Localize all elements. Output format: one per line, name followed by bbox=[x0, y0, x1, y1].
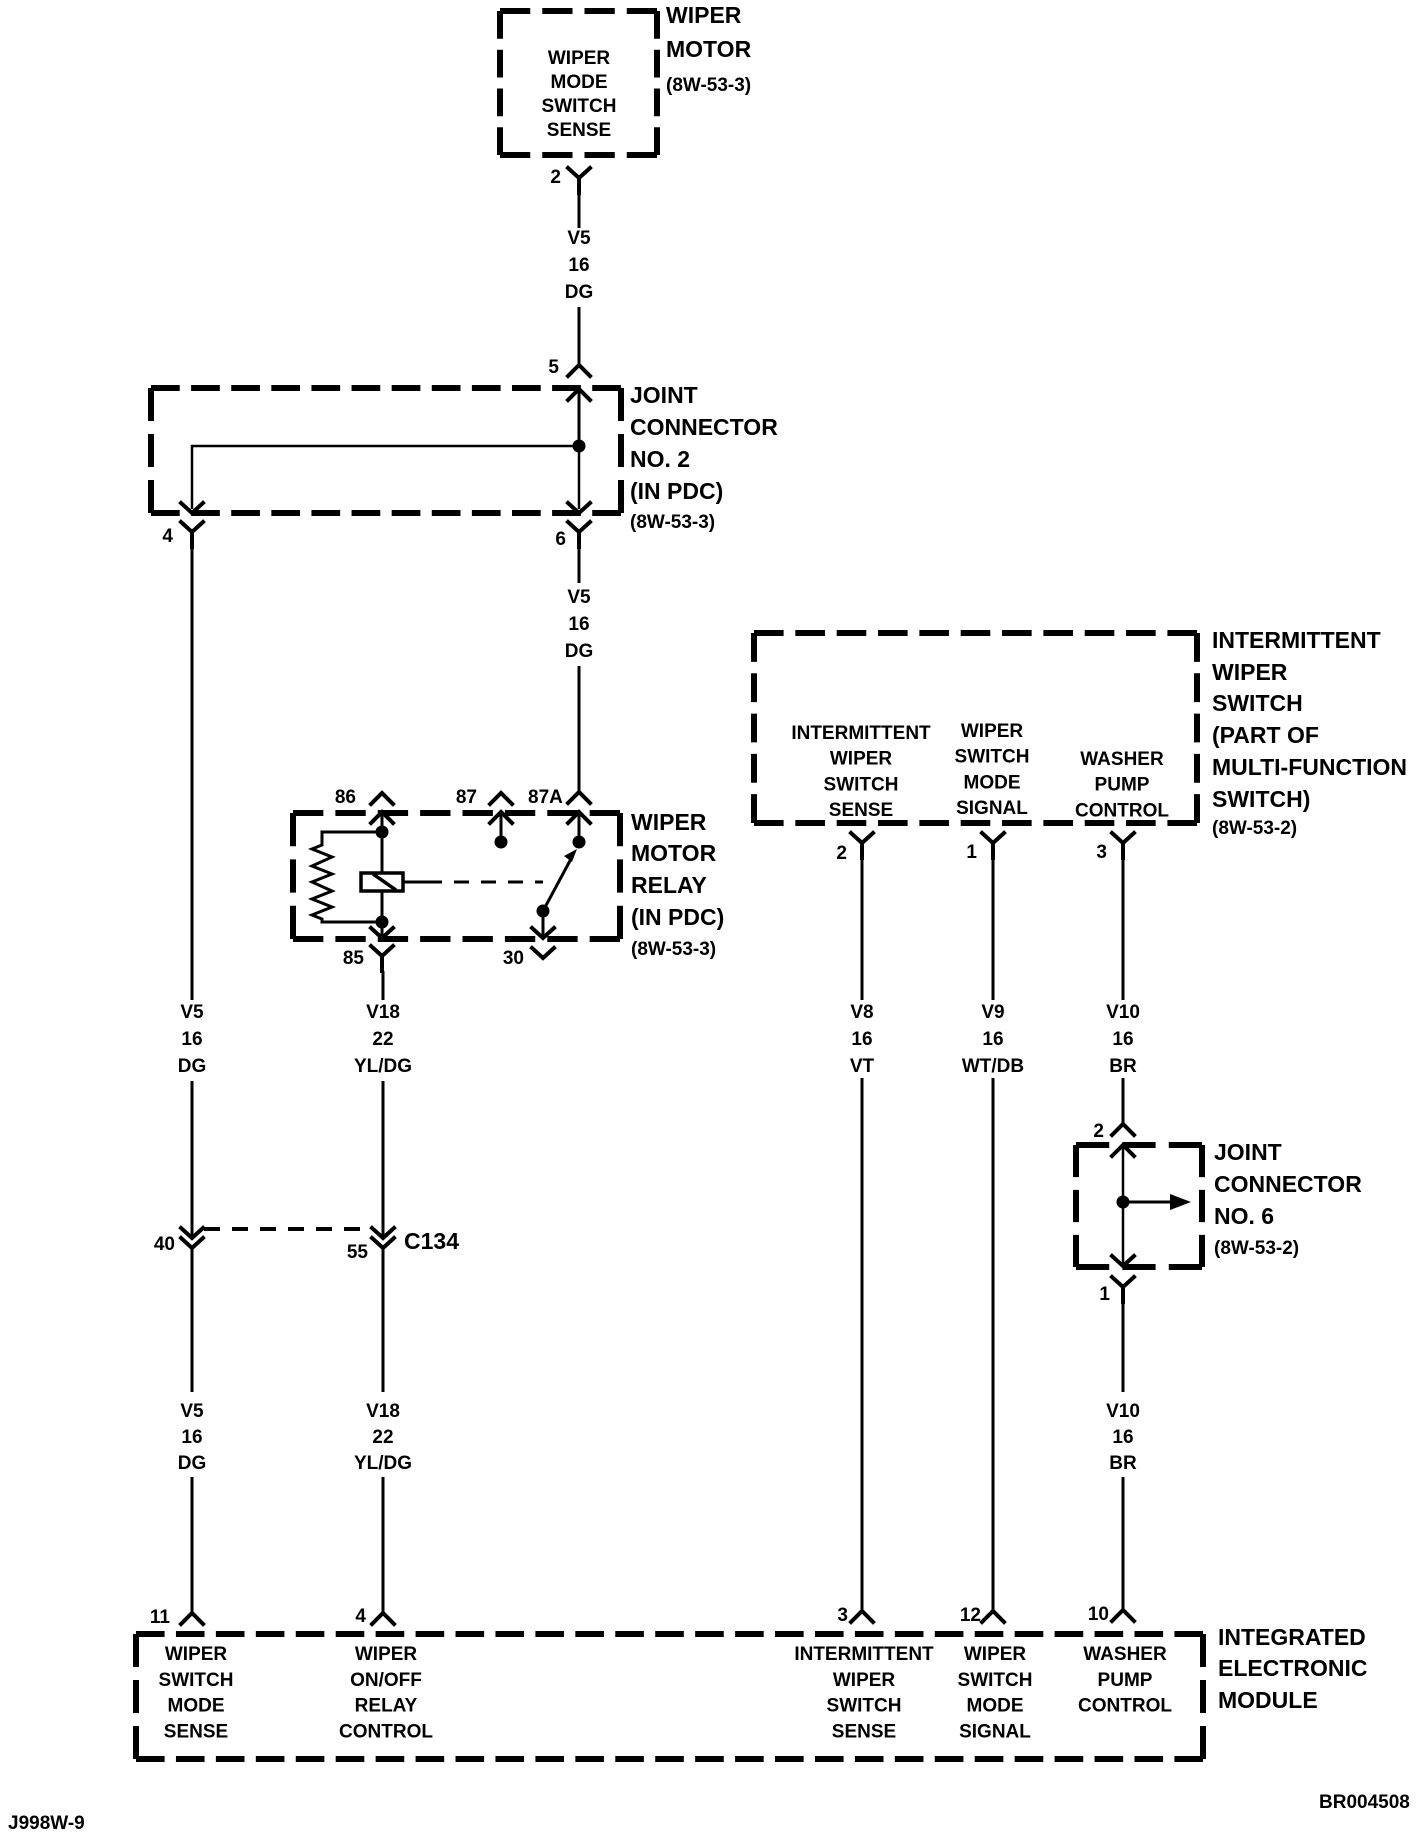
svg-text:CONTROL: CONTROL bbox=[1075, 800, 1169, 821]
svg-text:BR004508: BR004508 bbox=[1319, 1792, 1410, 1813]
wire label V8 16 VT bbox=[850, 1002, 875, 1077]
svg-text:V18: V18 bbox=[366, 1002, 400, 1023]
label: INTERMITTENT WIPER SWITCH SENSE (module) bbox=[794, 1644, 934, 1742]
svg-text:INTEGRATED: INTEGRATED bbox=[1218, 1624, 1366, 1650]
module pin 12 bbox=[960, 1605, 1004, 1626]
svg-text:RELAY: RELAY bbox=[631, 872, 707, 898]
svg-text:V5: V5 bbox=[567, 587, 591, 608]
connector C134 pin 55 bbox=[347, 1228, 394, 1263]
pin 1 of intermittent wiper switch bbox=[966, 833, 1004, 863]
svg-text:INTERMITTENT: INTERMITTENT bbox=[794, 1644, 934, 1665]
pin 2 of joint connector no.6 bbox=[1093, 1121, 1134, 1156]
wire: junction down to pin 6 bbox=[578, 446, 581, 509]
label: WIPER MOTOR (8W-53-3) bbox=[666, 2, 752, 96]
svg-text:WIPER: WIPER bbox=[961, 721, 1024, 742]
svg-text:(8W-53-3): (8W-53-3) bbox=[630, 512, 715, 533]
pin 4 of joint connector no.2 bbox=[162, 503, 203, 547]
svg-text:DG: DG bbox=[565, 641, 594, 662]
svg-text:V8: V8 bbox=[850, 1002, 873, 1023]
wire: down to module pin 10 bbox=[1122, 1477, 1125, 1610]
relay terminal 86 bbox=[335, 787, 393, 832]
svg-text:1: 1 bbox=[966, 842, 977, 863]
svg-text:87A: 87A bbox=[528, 787, 563, 808]
svg-text:(IN PDC): (IN PDC) bbox=[631, 904, 724, 930]
wire: C134 pin 55 down bbox=[382, 1248, 385, 1392]
svg-text:SWITCH: SWITCH bbox=[955, 747, 1030, 768]
relay terminal 87A bbox=[528, 787, 590, 849]
svg-text:22: 22 bbox=[372, 1029, 393, 1050]
pin 2 of wiper motor connector bbox=[550, 167, 590, 193]
pin 3 of intermittent wiper switch bbox=[1096, 833, 1134, 863]
svg-text:WIPER: WIPER bbox=[355, 1644, 418, 1665]
svg-text:(8W-53-3): (8W-53-3) bbox=[631, 939, 716, 960]
svg-text:CONNECTOR: CONNECTOR bbox=[630, 414, 778, 440]
svg-text:INTERMITTENT: INTERMITTENT bbox=[791, 723, 931, 744]
svg-text:16: 16 bbox=[181, 1029, 202, 1050]
svg-text:MODE: MODE bbox=[967, 1696, 1024, 1717]
label: WASHER PUMP CONTROL (inside) bbox=[1075, 749, 1169, 821]
svg-text:SIGNAL: SIGNAL bbox=[956, 798, 1028, 819]
relay coil actuator dashed link bbox=[403, 881, 543, 884]
svg-text:JOINT: JOINT bbox=[630, 382, 698, 408]
label: JOINT CONNECTOR NO. 2 (IN PDC) (8W-53-3) bbox=[630, 382, 778, 533]
wire label V5 16 DG (top) bbox=[565, 228, 594, 303]
svg-text:YL/DG: YL/DG bbox=[354, 1453, 412, 1474]
svg-text:V9: V9 bbox=[981, 1002, 1004, 1023]
svg-text:16: 16 bbox=[181, 1427, 202, 1448]
label: WIPER MOTOR RELAY (IN PDC) (8W-53-3) bbox=[631, 809, 724, 960]
svg-text:2: 2 bbox=[1093, 1121, 1104, 1142]
wire: down to relay terminal 87A bbox=[578, 666, 581, 792]
wire label V5 16 DG (left, upper) bbox=[178, 1002, 207, 1077]
wire label V10 16 BR (lower) bbox=[1106, 1401, 1140, 1474]
wire: down to module pin 4 bbox=[382, 1477, 385, 1613]
svg-text:(8W-53-2): (8W-53-2) bbox=[1214, 1238, 1299, 1259]
label: INTERMITTENT WIPER SWITCH (PART OF MULTI-FUNCTION SWITCH) (8W-53-2) bbox=[1212, 627, 1407, 839]
node: junction inside joint connector no.2 bbox=[573, 440, 586, 453]
pin 2 of intermittent wiper switch bbox=[836, 833, 873, 864]
svg-text:NO. 6: NO. 6 bbox=[1214, 1203, 1274, 1229]
wire: joint connector no.2 pin 4 down (long left wire) bbox=[191, 547, 194, 1000]
svg-text:MULTI-FUNCTION: MULTI-FUNCTION bbox=[1212, 754, 1407, 780]
svg-text:SENSE: SENSE bbox=[832, 1721, 896, 1742]
svg-text:16: 16 bbox=[982, 1029, 1003, 1050]
svg-text:SIGNAL: SIGNAL bbox=[959, 1721, 1031, 1742]
svg-text:CONTROL: CONTROL bbox=[1078, 1696, 1172, 1717]
svg-text:C134: C134 bbox=[404, 1228, 459, 1254]
module pin 10 bbox=[1088, 1604, 1134, 1625]
svg-text:MOTOR: MOTOR bbox=[631, 840, 717, 866]
relay coil resistor bbox=[312, 832, 382, 922]
svg-text:16: 16 bbox=[568, 255, 589, 276]
svg-text:12: 12 bbox=[960, 1605, 981, 1626]
wire: down to joint connector no.6 pin 2 bbox=[1122, 1078, 1125, 1124]
node: junction inside joint connector no.6 bbox=[1117, 1196, 1130, 1209]
label: WIPER ON/OFF RELAY CONTROL bbox=[339, 1644, 433, 1742]
svg-text:MOTOR: MOTOR bbox=[666, 36, 752, 62]
pin 1 of joint connector no.6 bbox=[1099, 1256, 1134, 1305]
wire label V10 16 BR (upper) bbox=[1106, 1002, 1140, 1077]
svg-text:85: 85 bbox=[343, 948, 365, 969]
wire label V9 16 WT/DB bbox=[962, 1002, 1024, 1077]
node: relay coil top junction bbox=[376, 826, 389, 839]
svg-text:30: 30 bbox=[503, 948, 524, 969]
svg-text:V18: V18 bbox=[366, 1401, 400, 1422]
svg-text:3: 3 bbox=[837, 1605, 848, 1626]
pin 6 of joint connector no.2 bbox=[555, 503, 590, 550]
svg-text:JOINT: JOINT bbox=[1214, 1139, 1282, 1165]
module pin 11 bbox=[150, 1607, 203, 1628]
svg-text:SWITCH: SWITCH bbox=[542, 96, 617, 117]
wire: relay 85 down (segment) bbox=[382, 971, 385, 1000]
svg-text:SWITCH: SWITCH bbox=[824, 774, 899, 795]
svg-text:SWITCH: SWITCH bbox=[958, 1670, 1033, 1691]
svg-text:WIPER: WIPER bbox=[964, 1644, 1027, 1665]
svg-text:WIPER: WIPER bbox=[833, 1670, 896, 1691]
svg-text:(8W-53-2): (8W-53-2) bbox=[1212, 818, 1297, 839]
svg-text:CONTROL: CONTROL bbox=[339, 1721, 433, 1742]
label: WIPER SWITCH MODE SIGNAL (inside) bbox=[955, 721, 1030, 819]
svg-text:V5: V5 bbox=[567, 228, 591, 249]
svg-text:55: 55 bbox=[347, 1242, 369, 1263]
label: JOINT CONNECTOR NO. 6 (8W-53-2) bbox=[1214, 1139, 1362, 1259]
svg-text:SWITCH: SWITCH bbox=[159, 1670, 234, 1691]
module pin 3 bbox=[837, 1605, 873, 1626]
svg-text:ELECTRONIC: ELECTRONIC bbox=[1218, 1655, 1368, 1681]
wire label V5 16 DG (middle) bbox=[565, 587, 594, 662]
svg-text:SWITCH: SWITCH bbox=[827, 1696, 902, 1717]
svg-text:(IN PDC): (IN PDC) bbox=[630, 478, 723, 504]
svg-text:SWITCH): SWITCH) bbox=[1212, 786, 1310, 812]
connector C134 pin 40 bbox=[154, 1228, 203, 1255]
svg-text:NO. 2: NO. 2 bbox=[630, 446, 690, 472]
svg-text:V10: V10 bbox=[1106, 1002, 1140, 1023]
svg-text:CONNECTOR: CONNECTOR bbox=[1214, 1171, 1362, 1197]
svg-text:MODE: MODE bbox=[964, 772, 1021, 793]
wire: down to joint connector no.2 pin 5 bbox=[578, 307, 581, 365]
wire: switch pin 3 down (segment) bbox=[1122, 851, 1125, 1000]
label: INTERMITTENT WIPER SWITCH SENSE (inside) bbox=[791, 723, 931, 821]
svg-text:1: 1 bbox=[1099, 1284, 1110, 1305]
svg-text:BR: BR bbox=[1109, 1056, 1137, 1077]
svg-text:MODULE: MODULE bbox=[1218, 1687, 1318, 1713]
wire label V18 22 YL/DG (lower) bbox=[354, 1401, 412, 1474]
svg-text:16: 16 bbox=[851, 1029, 872, 1050]
svg-text:DG: DG bbox=[565, 282, 594, 303]
svg-text:V5: V5 bbox=[180, 1002, 204, 1023]
label: WASHER PUMP CONTROL (module) bbox=[1078, 1644, 1172, 1717]
svg-text:86: 86 bbox=[335, 787, 356, 808]
wire: wiper motor pin 2 down (upper segment) bbox=[578, 186, 581, 228]
wire: left wire to C134 pin 40 bbox=[191, 1081, 194, 1238]
svg-text:3: 3 bbox=[1096, 842, 1107, 863]
box: integrated electronic module bbox=[136, 1634, 1203, 1759]
splice arrow inside joint connector no.6 bbox=[1123, 1194, 1191, 1210]
svg-text:87: 87 bbox=[456, 787, 477, 808]
svg-text:MODE: MODE bbox=[551, 72, 608, 93]
wire: switch pin 2 down (segment) bbox=[861, 851, 864, 1000]
wire: down to module pin 12 bbox=[992, 1078, 995, 1611]
module pin 4 bbox=[355, 1606, 394, 1627]
label: WIPER SWITCH MODE SENSE bbox=[159, 1644, 234, 1742]
svg-text:16: 16 bbox=[1112, 1029, 1133, 1050]
wire: pin 6 down (segment) bbox=[578, 547, 581, 583]
svg-text:ON/OFF: ON/OFF bbox=[350, 1670, 422, 1691]
svg-text:40: 40 bbox=[154, 1234, 175, 1255]
svg-text:WASHER: WASHER bbox=[1080, 749, 1164, 770]
svg-text:16: 16 bbox=[1112, 1427, 1133, 1448]
svg-text:11: 11 bbox=[150, 1607, 171, 1628]
relay terminal 30 bbox=[503, 948, 554, 969]
svg-text:2: 2 bbox=[550, 167, 561, 188]
svg-text:WASHER: WASHER bbox=[1083, 1644, 1167, 1665]
svg-text:WIPER: WIPER bbox=[830, 749, 893, 770]
wire label V5 16 DG (left, lower) bbox=[178, 1401, 207, 1474]
svg-text:PUMP: PUMP bbox=[1098, 1670, 1153, 1691]
label: WIPER SWITCH MODE SIGNAL (module) bbox=[958, 1644, 1033, 1742]
box: wiper motor relay bbox=[293, 813, 620, 939]
relay switch arm (30 to 87A) bbox=[532, 849, 577, 938]
svg-text:WT/DB: WT/DB bbox=[962, 1056, 1024, 1077]
svg-text:RELAY: RELAY bbox=[355, 1696, 418, 1717]
svg-text:22: 22 bbox=[372, 1427, 393, 1448]
relay terminal 87 bbox=[456, 787, 512, 849]
box: intermittent wiper switch bbox=[754, 633, 1197, 823]
wire: switch pin 1 down (segment) bbox=[992, 851, 995, 1000]
svg-text:BR: BR bbox=[1109, 1453, 1137, 1474]
box: joint connector no. 6 bbox=[1076, 1145, 1202, 1267]
box: wiper mode switch sense (in wiper motor) bbox=[500, 11, 657, 155]
svg-text:(8W-53-3): (8W-53-3) bbox=[666, 75, 751, 96]
wire label V18 22 YL/DG (upper) bbox=[354, 1002, 412, 1077]
label: INTEGRATED ELECTRONIC MODULE bbox=[1218, 1624, 1368, 1713]
svg-text:5: 5 bbox=[548, 357, 559, 378]
wire: C134 pin 40 down bbox=[191, 1248, 194, 1392]
svg-text:WIPER: WIPER bbox=[165, 1644, 228, 1665]
svg-text:INTERMITTENT: INTERMITTENT bbox=[1212, 627, 1381, 653]
svg-text:SWITCH: SWITCH bbox=[1212, 690, 1303, 716]
wire: through joint connector no.6 bbox=[1122, 1145, 1125, 1263]
wire: joint connector no.6 pin 1 down bbox=[1122, 1301, 1125, 1392]
svg-text:SENSE: SENSE bbox=[547, 120, 611, 141]
svg-text:WIPER: WIPER bbox=[631, 809, 707, 835]
svg-text:WIPER: WIPER bbox=[1212, 659, 1288, 685]
svg-text:4: 4 bbox=[162, 526, 173, 547]
svg-text:10: 10 bbox=[1088, 1604, 1109, 1625]
svg-text:VT: VT bbox=[850, 1056, 875, 1077]
svg-text:J998W-9: J998W-9 bbox=[8, 1813, 85, 1834]
svg-text:V10: V10 bbox=[1106, 1401, 1140, 1422]
svg-text:WIPER: WIPER bbox=[548, 48, 611, 69]
svg-text:4: 4 bbox=[355, 1606, 366, 1627]
svg-text:(PART OF: (PART OF bbox=[1212, 722, 1319, 748]
svg-text:YL/DG: YL/DG bbox=[354, 1056, 412, 1077]
svg-text:V5: V5 bbox=[180, 1401, 204, 1422]
node: relay coil bottom junction bbox=[376, 916, 389, 929]
wire: down to module pin 11 bbox=[191, 1477, 194, 1613]
svg-text:SENSE: SENSE bbox=[164, 1721, 228, 1742]
box: joint connector no. 2 bbox=[151, 388, 621, 513]
wire: junction left and down to pin 4 bbox=[192, 446, 579, 509]
svg-text:DG: DG bbox=[178, 1453, 207, 1474]
svg-text:16: 16 bbox=[568, 614, 589, 635]
relay terminal 85 bbox=[343, 922, 393, 971]
wire: down to module pin 3 bbox=[861, 1078, 864, 1611]
svg-text:DG: DG bbox=[178, 1056, 207, 1077]
relay coil (winding through core) bbox=[361, 832, 403, 922]
wire: pin 5 through joint connector to junction bbox=[578, 388, 581, 446]
svg-text:2: 2 bbox=[836, 843, 847, 864]
pin 5 of joint connector no.2 bbox=[548, 357, 590, 400]
svg-text:PUMP: PUMP bbox=[1095, 775, 1150, 796]
wire: down to connector C134 pin 55 bbox=[382, 1081, 385, 1238]
svg-text:WIPER: WIPER bbox=[666, 2, 742, 28]
svg-text:SENSE: SENSE bbox=[829, 800, 893, 821]
svg-text:6: 6 bbox=[555, 529, 566, 550]
svg-text:MODE: MODE bbox=[168, 1696, 225, 1717]
dashed link between C134 halves bbox=[204, 1227, 372, 1231]
